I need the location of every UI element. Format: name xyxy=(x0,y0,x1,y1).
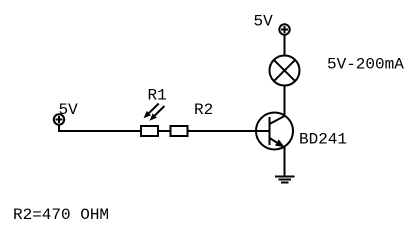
svg-text:5V: 5V xyxy=(254,13,274,31)
svg-text:R1: R1 xyxy=(148,87,167,105)
light arrow 1 xyxy=(149,104,159,114)
resistor R2 xyxy=(171,126,188,136)
svg-text:5V: 5V xyxy=(59,101,79,119)
light arrow 2 xyxy=(155,106,165,116)
wire terminal to lamp xyxy=(284,35,286,56)
wire emitter to ground xyxy=(284,146,286,176)
svg-text:R2: R2 xyxy=(194,101,213,119)
svg-text:R2=470 OHM: R2=470 OHM xyxy=(13,206,109,224)
svg-text:BD241: BD241 xyxy=(299,131,347,149)
node +5V top terminal xyxy=(279,24,289,34)
transistor Q1 BD241 (NPN) xyxy=(256,113,293,150)
wire R2 to base xyxy=(189,130,270,132)
wire R1 to R2 xyxy=(159,130,170,132)
emitter arrowhead xyxy=(275,139,285,147)
lamp L1 (circle with X) xyxy=(270,56,300,86)
wire lamp to collector xyxy=(284,86,286,117)
wire left terminal to R1 xyxy=(59,125,141,131)
svg-text:5V-200mA: 5V-200mA xyxy=(327,56,404,74)
ground xyxy=(275,177,295,183)
resistor R1 (photoresistor box) xyxy=(141,126,158,136)
node +5V left terminal xyxy=(54,114,64,124)
